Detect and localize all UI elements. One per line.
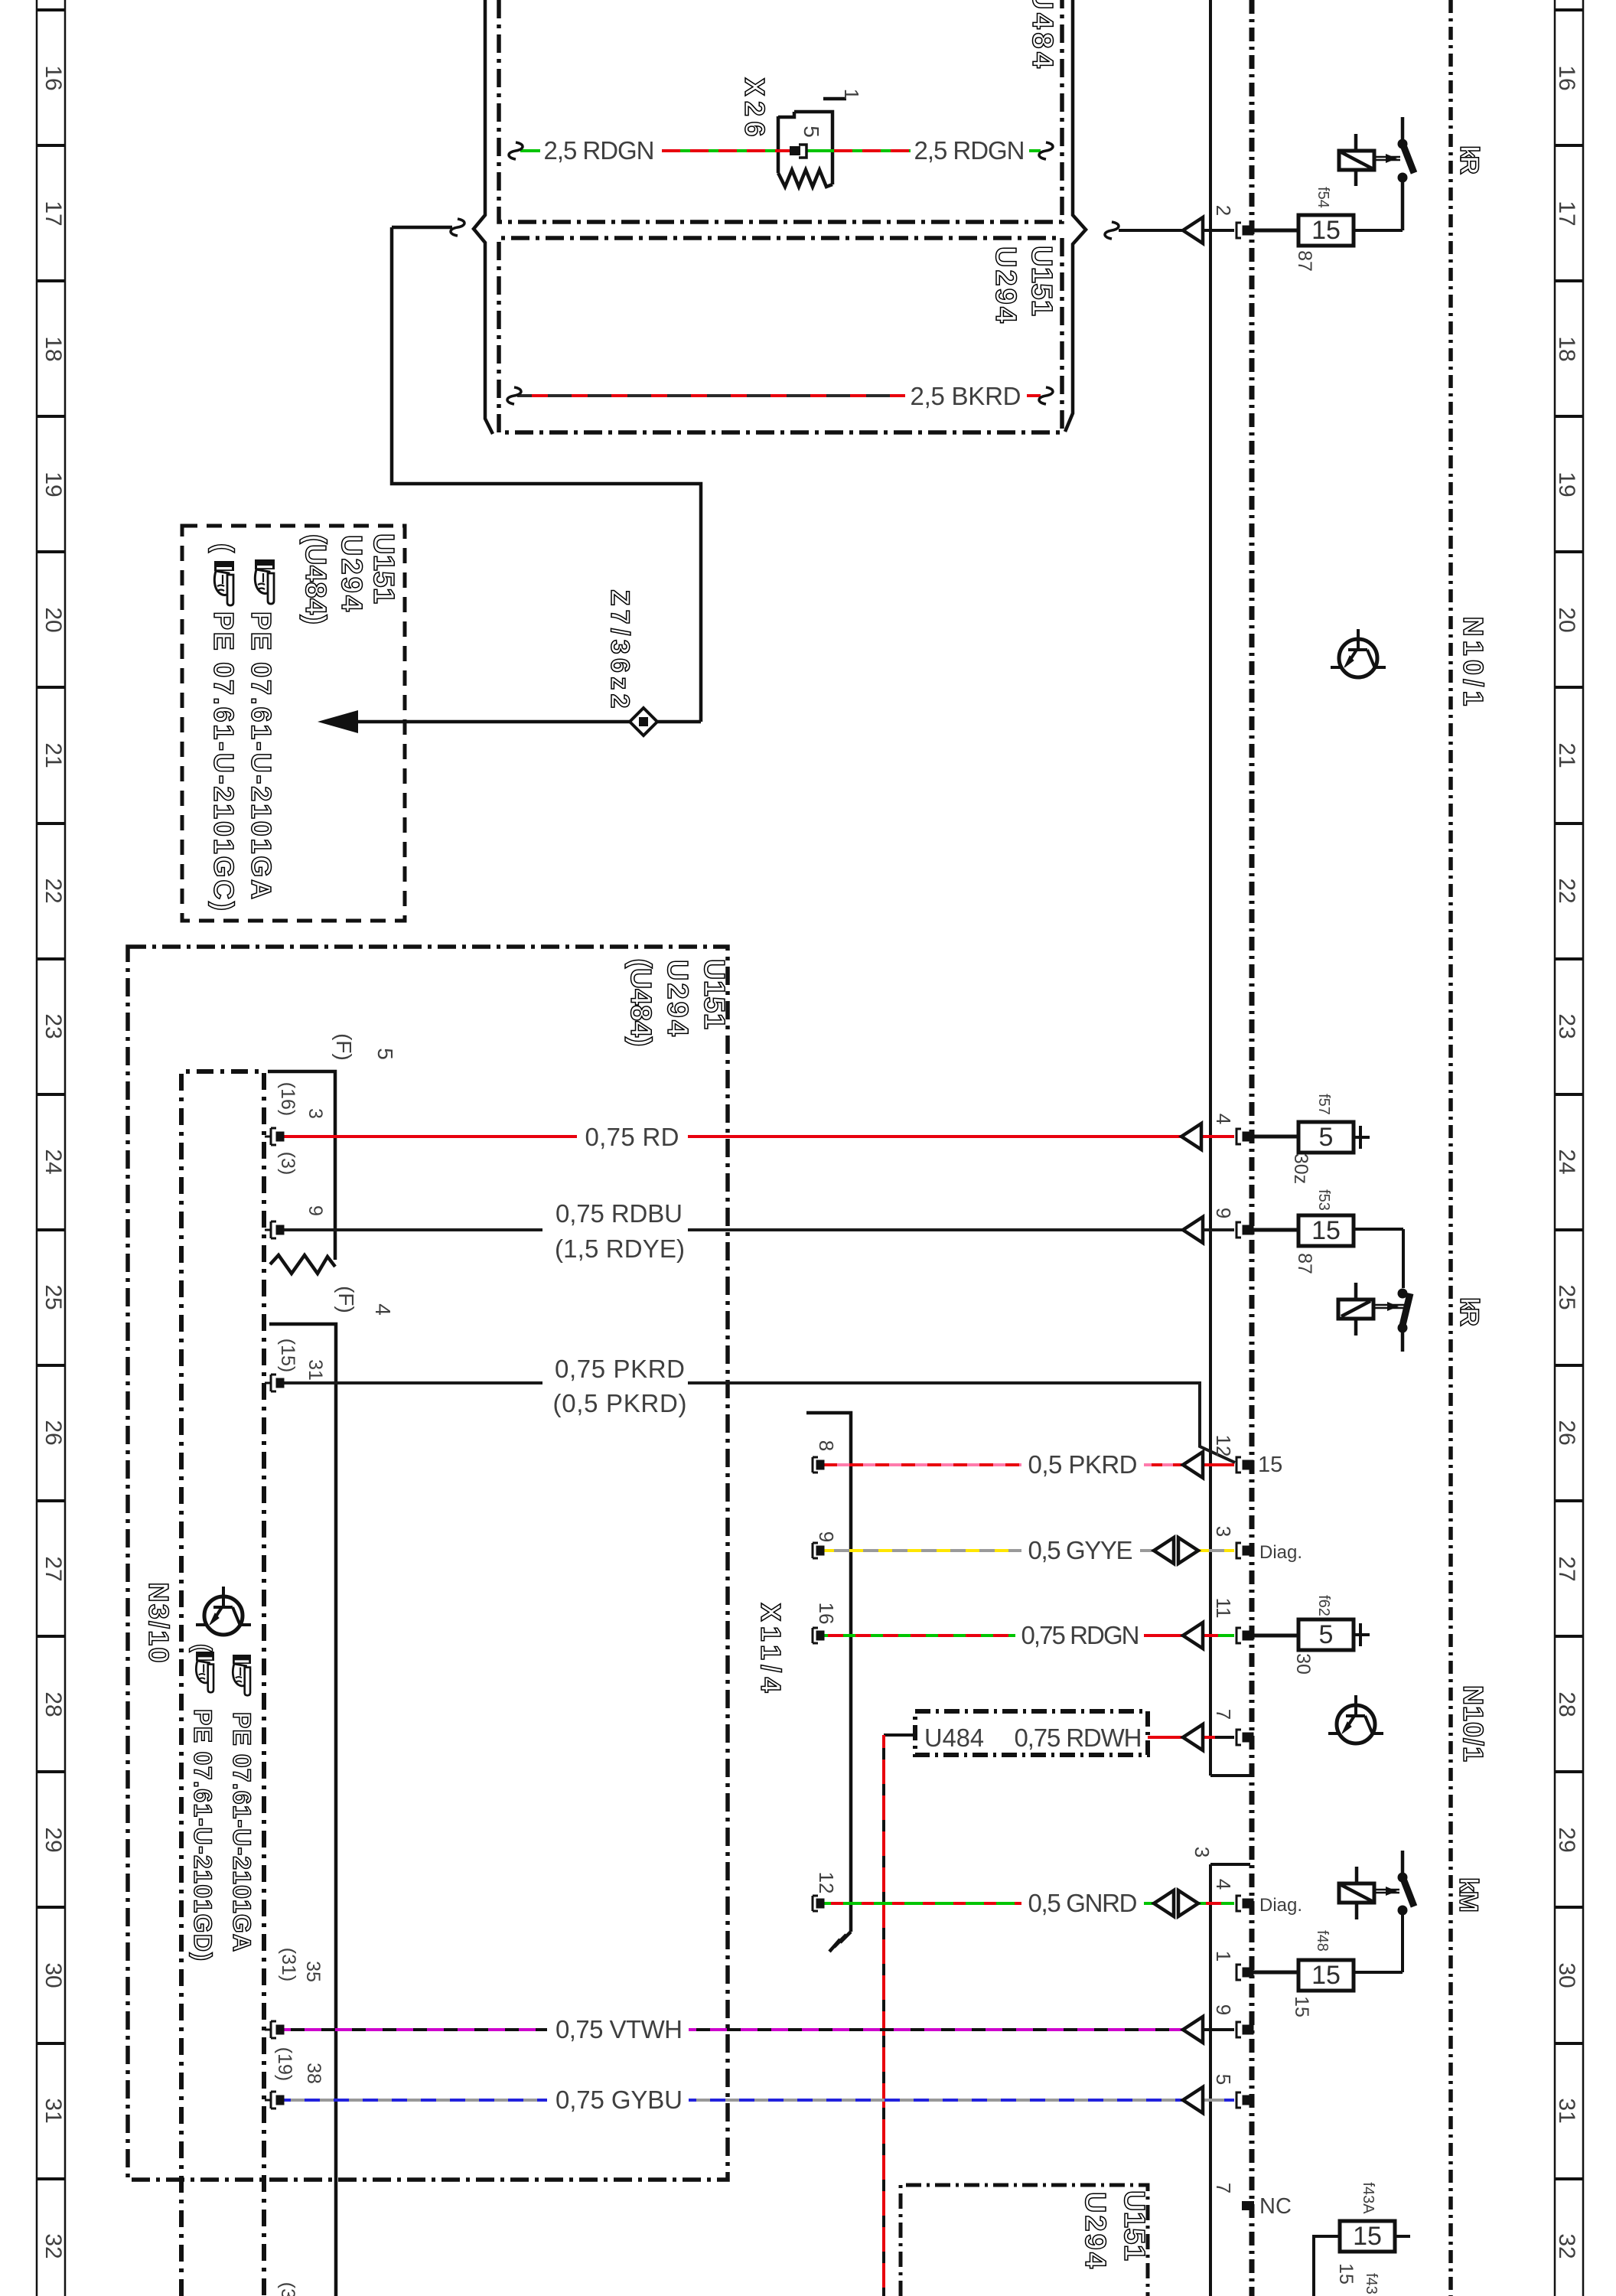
svg-text:(F): (F) <box>332 1033 356 1061</box>
svg-text:32: 32 <box>1554 2233 1579 2258</box>
svg-text:(U484): (U484) <box>624 959 656 1047</box>
svg-text:19: 19 <box>1554 471 1579 497</box>
svg-text:f43: f43 <box>1363 2273 1380 2294</box>
svg-text:16: 16 <box>1554 65 1579 90</box>
svg-text:7: 7 <box>1212 2183 1235 2193</box>
svg-text:11: 11 <box>1212 1598 1235 1619</box>
svg-text:(16): (16) <box>277 1082 298 1116</box>
svg-text:18: 18 <box>1554 336 1579 361</box>
svg-text:N10/1: N10/1 <box>1458 617 1489 706</box>
svg-text:9: 9 <box>1212 2004 1235 2015</box>
svg-text:PE 07.61-U-2101GD): PE 07.61-U-2101GD) <box>189 1709 217 1961</box>
svg-text:4: 4 <box>371 1303 395 1316</box>
svg-text:30: 30 <box>1554 1962 1579 1988</box>
svg-text:20: 20 <box>1554 607 1579 632</box>
svg-text:NC: NC <box>1259 2194 1292 2219</box>
svg-text:(19): (19) <box>274 2047 295 2081</box>
svg-text:0,5 GNRD: 0,5 GNRD <box>1028 1889 1138 1917</box>
svg-text:28: 28 <box>1554 1691 1579 1717</box>
svg-text:15: 15 <box>1311 1216 1341 1245</box>
svg-text:U151: U151 <box>1025 246 1057 316</box>
svg-text:31: 31 <box>41 2098 66 2123</box>
svg-text:(: ( <box>208 543 239 553</box>
svg-text:38: 38 <box>303 2063 324 2084</box>
svg-text:30: 30 <box>41 1962 66 1988</box>
svg-text:X11/4: X11/4 <box>755 1603 787 1693</box>
svg-text:25: 25 <box>41 1284 66 1309</box>
svg-text:X26: X26 <box>739 78 771 137</box>
svg-text:5: 5 <box>1212 2074 1235 2085</box>
svg-text:9: 9 <box>815 1531 838 1542</box>
svg-text:0,5 PKRD: 0,5 PKRD <box>1028 1450 1138 1479</box>
svg-text:Diag.: Diag. <box>1259 1542 1302 1563</box>
svg-text:27: 27 <box>41 1556 66 1581</box>
svg-text:16: 16 <box>41 65 66 90</box>
svg-text:0,75 RD: 0,75 RD <box>585 1123 679 1151</box>
svg-text:5: 5 <box>800 126 823 138</box>
svg-text:23: 23 <box>1554 1013 1579 1039</box>
svg-text:32: 32 <box>41 2233 66 2258</box>
svg-text:31: 31 <box>1554 2098 1579 2123</box>
svg-text:PE 07.61-U-2101GC): PE 07.61-U-2101GC) <box>208 612 239 911</box>
svg-text:0,75 RDGN: 0,75 RDGN <box>1021 1621 1140 1649</box>
svg-text:(1,5 RDYE): (1,5 RDYE) <box>555 1234 685 1263</box>
svg-text:0,75 GYBU: 0,75 GYBU <box>555 2086 683 2114</box>
svg-text:8: 8 <box>815 1440 838 1451</box>
svg-text:30: 30 <box>1292 1653 1314 1675</box>
svg-text:2,5 RDGN: 2,5 RDGN <box>544 136 655 165</box>
svg-text:15: 15 <box>1291 1996 1312 2017</box>
svg-text:U151: U151 <box>1118 2190 1150 2261</box>
svg-text:17: 17 <box>1554 201 1579 226</box>
svg-text:7: 7 <box>1212 1709 1235 1720</box>
svg-text:N10/1: N10/1 <box>1458 1685 1489 1762</box>
svg-text:0,75 VTWH: 0,75 VTWH <box>555 2015 683 2043</box>
svg-text:4: 4 <box>1212 1114 1235 1124</box>
svg-text:U151: U151 <box>367 533 399 604</box>
svg-text:87: 87 <box>1294 1253 1315 1274</box>
svg-text:Diag.: Diag. <box>1259 1895 1302 1916</box>
svg-text:2: 2 <box>1212 205 1235 216</box>
svg-text:5: 5 <box>1319 1123 1334 1152</box>
svg-text:U294: U294 <box>335 535 367 612</box>
svg-text:22: 22 <box>1554 878 1579 903</box>
svg-text:f43A: f43A <box>1360 2182 1377 2214</box>
svg-text:18: 18 <box>41 336 66 361</box>
svg-text:3: 3 <box>305 1108 326 1119</box>
svg-text:(: ( <box>189 1644 217 1652</box>
svg-text:12: 12 <box>1212 1435 1235 1457</box>
svg-text:1: 1 <box>1212 1951 1235 1962</box>
svg-text:f57: f57 <box>1315 1094 1332 1115</box>
svg-text:0,5 GYYE: 0,5 GYYE <box>1028 1536 1133 1564</box>
svg-text:23: 23 <box>41 1013 66 1039</box>
svg-text:25: 25 <box>1554 1284 1579 1309</box>
svg-text:U294: U294 <box>1079 2192 1111 2268</box>
svg-text:U294: U294 <box>989 246 1021 323</box>
svg-text:U484: U484 <box>1026 0 1058 68</box>
svg-text:28: 28 <box>41 1691 66 1717</box>
svg-text:(0,5 PKRD): (0,5 PKRD) <box>553 1389 687 1417</box>
svg-text:24: 24 <box>41 1149 66 1174</box>
svg-text:(31): (31) <box>277 2282 298 2296</box>
svg-text:15: 15 <box>1258 1453 1282 1477</box>
svg-text:24: 24 <box>1554 1149 1579 1174</box>
svg-text:kR: kR <box>1455 145 1484 174</box>
svg-text:16: 16 <box>815 1603 838 1625</box>
svg-text:(F): (F) <box>334 1286 358 1313</box>
svg-text:27: 27 <box>1554 1556 1579 1581</box>
svg-text:kR: kR <box>1455 1297 1484 1326</box>
svg-text:2,5 RDGN: 2,5 RDGN <box>914 136 1025 165</box>
svg-text:29: 29 <box>1554 1827 1579 1852</box>
svg-text:N3/10: N3/10 <box>143 1583 174 1663</box>
svg-text:f62: f62 <box>1315 1595 1332 1616</box>
svg-text:21: 21 <box>1554 742 1579 768</box>
svg-text:1: 1 <box>840 89 863 99</box>
svg-text:U151: U151 <box>698 959 730 1029</box>
svg-text:(15): (15) <box>277 1339 298 1372</box>
svg-text:35: 35 <box>302 1961 324 1982</box>
svg-text:17: 17 <box>41 201 66 226</box>
svg-text:12: 12 <box>815 1872 838 1894</box>
svg-text:0,75 RDWH: 0,75 RDWH <box>1015 1724 1142 1752</box>
svg-text:f48: f48 <box>1314 1930 1331 1952</box>
svg-text:(3): (3) <box>277 1152 298 1176</box>
svg-text:4: 4 <box>1212 1879 1235 1890</box>
svg-text:29: 29 <box>41 1827 66 1852</box>
svg-text:0,75 RDBU: 0,75 RDBU <box>555 1199 683 1228</box>
svg-text:kM: kM <box>1454 1877 1483 1913</box>
svg-text:(31): (31) <box>278 1948 299 1981</box>
svg-text:15: 15 <box>1311 216 1341 245</box>
svg-text:3: 3 <box>1191 1847 1214 1857</box>
svg-text:f54: f54 <box>1315 187 1331 208</box>
svg-text:5: 5 <box>1319 1620 1334 1649</box>
svg-text:15: 15 <box>1353 2222 1382 2251</box>
svg-text:3: 3 <box>1212 1526 1235 1537</box>
svg-text:0,75 PKRD: 0,75 PKRD <box>555 1355 685 1383</box>
svg-text:19: 19 <box>41 471 66 497</box>
svg-text:2,5 BKRD: 2,5 BKRD <box>911 382 1021 410</box>
svg-text:PE 07.61-U-2101GA: PE 07.61-U-2101GA <box>246 612 277 899</box>
svg-text:15: 15 <box>1335 2263 1357 2285</box>
svg-text:15: 15 <box>1311 1961 1341 1990</box>
svg-text:22: 22 <box>41 878 66 903</box>
svg-text:30z: 30z <box>1290 1153 1311 1184</box>
svg-text:(U484): (U484) <box>299 534 331 625</box>
svg-text:f53: f53 <box>1315 1189 1332 1211</box>
svg-text:U484: U484 <box>924 1724 984 1752</box>
svg-text:26: 26 <box>41 1420 66 1445</box>
svg-text:87: 87 <box>1294 250 1315 272</box>
svg-text:9: 9 <box>305 1205 326 1216</box>
svg-text:21: 21 <box>41 742 66 768</box>
svg-text:31: 31 <box>305 1359 326 1381</box>
svg-text:Z7/36z2: Z7/36z2 <box>605 590 634 709</box>
svg-text:9: 9 <box>1212 1208 1235 1218</box>
svg-text:26: 26 <box>1554 1420 1579 1445</box>
svg-text:5: 5 <box>373 1048 397 1060</box>
svg-text:PE 07.61-U-2101GA: PE 07.61-U-2101GA <box>228 1712 256 1952</box>
svg-text:20: 20 <box>41 607 66 632</box>
svg-text:U294: U294 <box>661 960 693 1036</box>
